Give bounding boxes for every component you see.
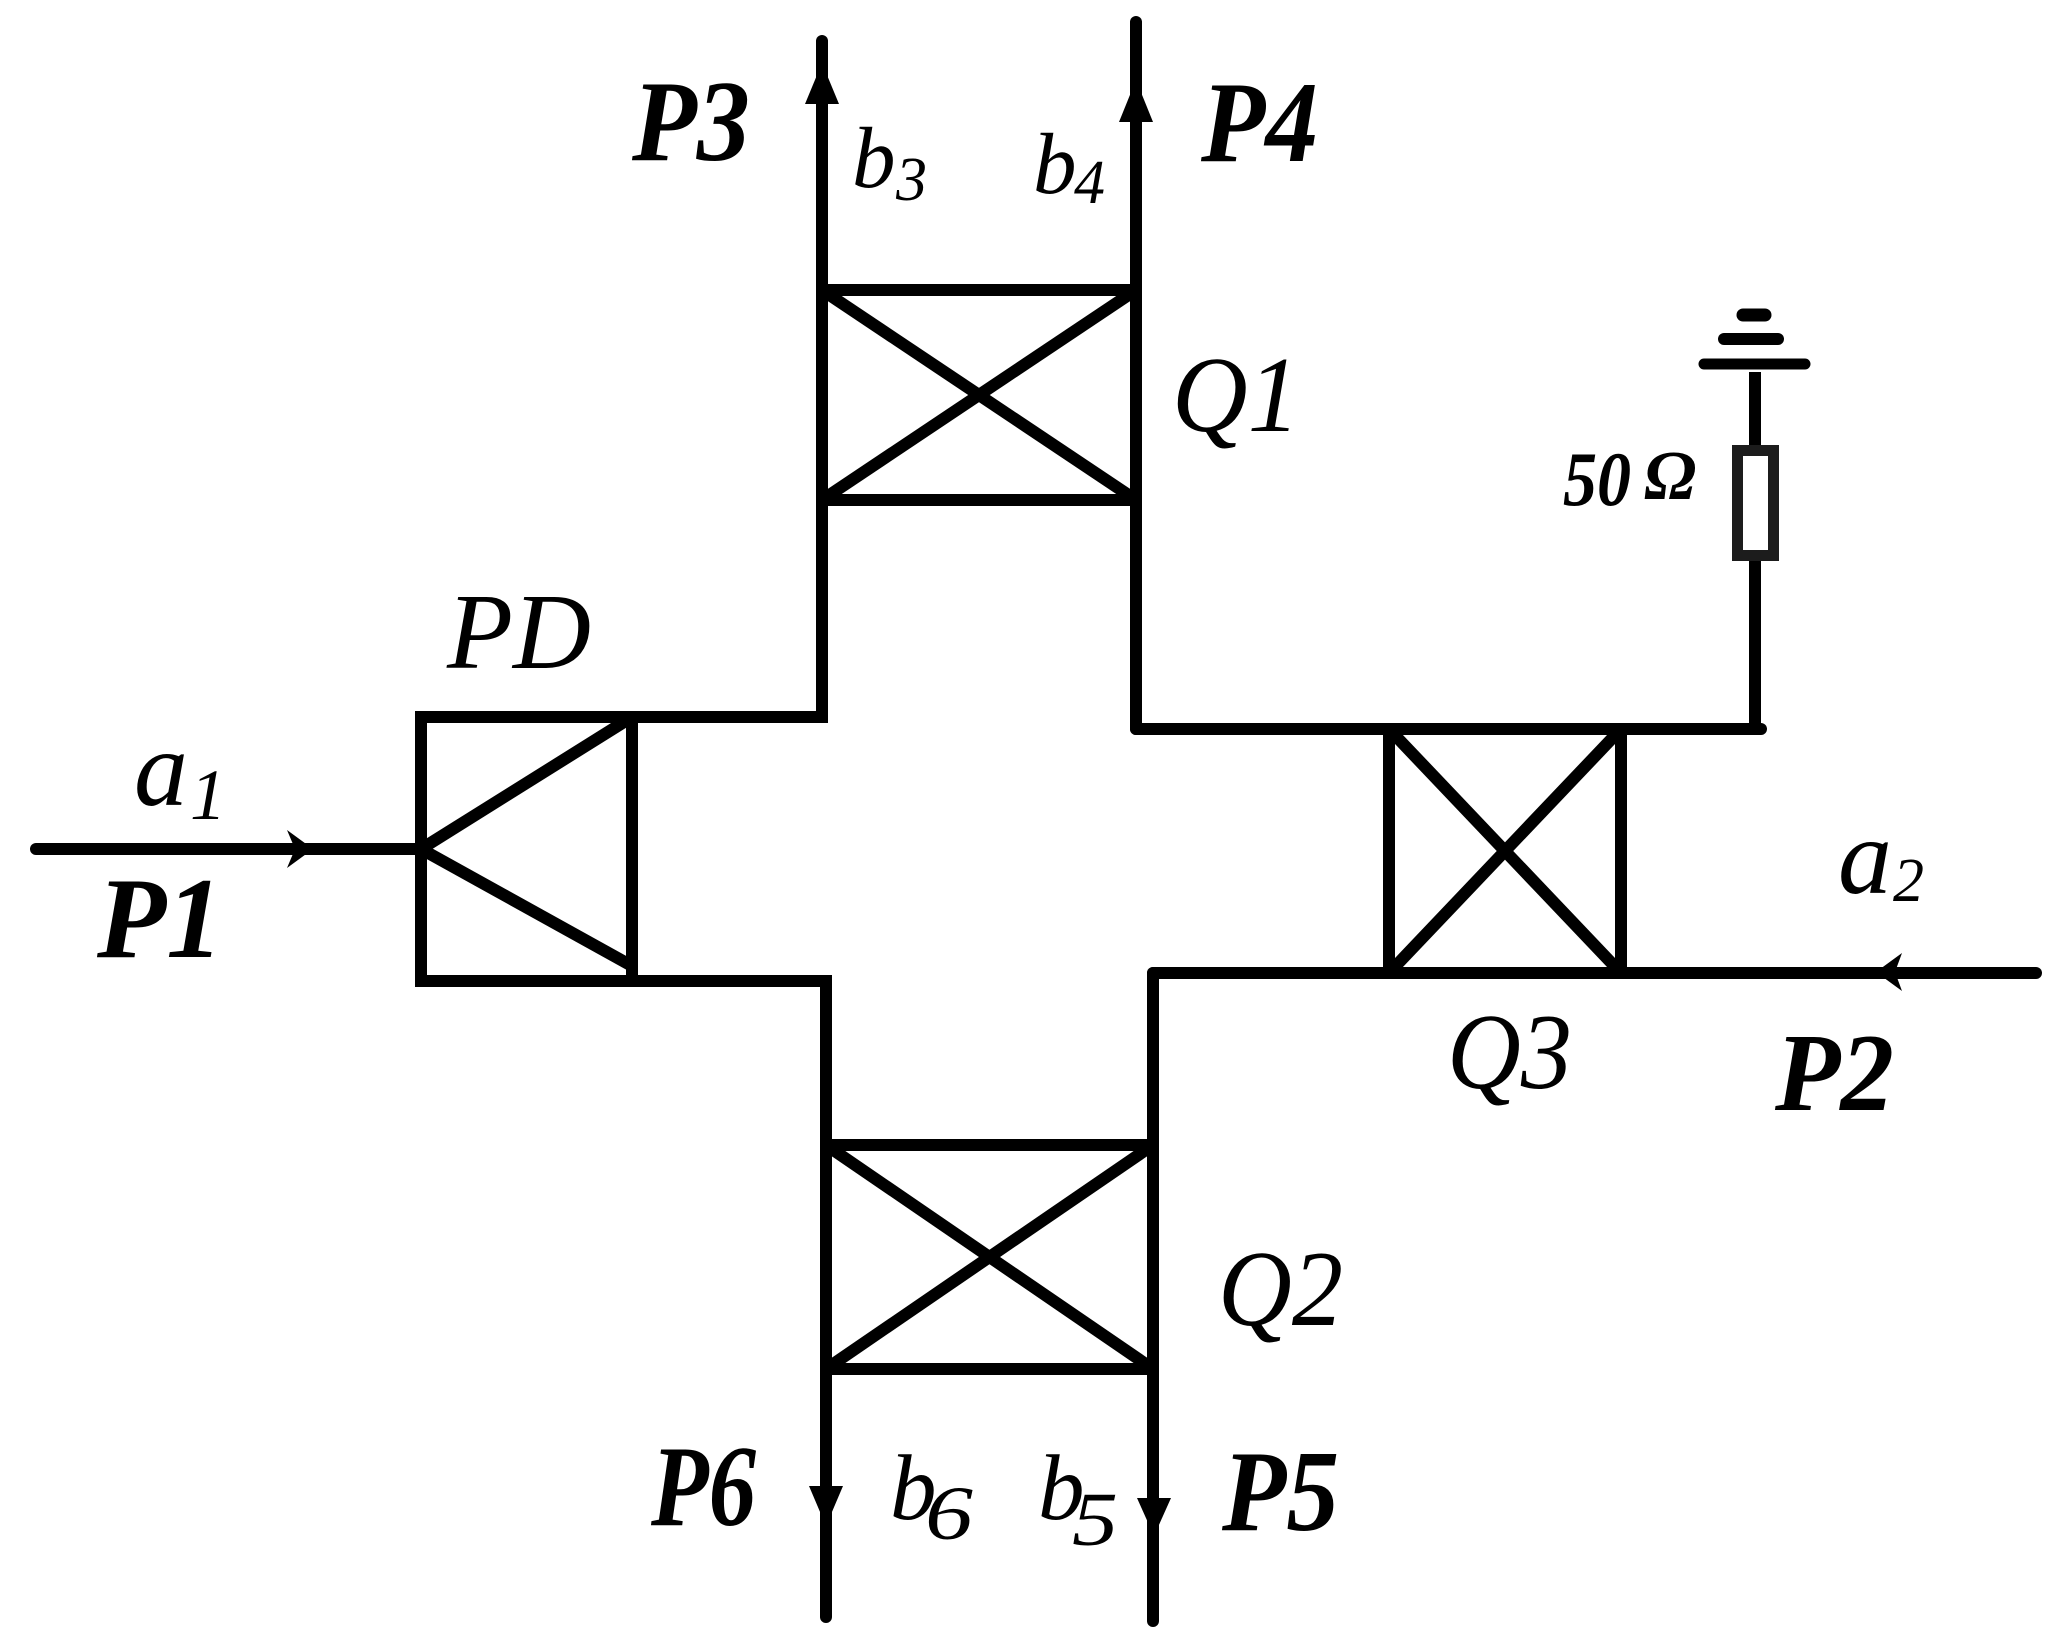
svg-text:Q3: Q3 bbox=[1447, 993, 1572, 1112]
wire PD top edge + top-left wire to P3 line bbox=[421, 711, 828, 723]
arrowhead a1 into PD bbox=[287, 830, 313, 868]
svg-text:b: b bbox=[852, 109, 896, 206]
arrowhead P6 down bbox=[809, 1486, 843, 1526]
svg-text:b: b bbox=[1033, 115, 1077, 212]
svg-text:P1: P1 bbox=[96, 855, 223, 982]
hybrid coupler Q2 box bbox=[826, 1145, 1153, 1369]
hybrid coupler Q1 box bbox=[822, 290, 1136, 500]
arrowhead P5 down bbox=[1137, 1498, 1171, 1536]
hybrid coupler Q3 box bbox=[1389, 729, 1621, 973]
svg-text:a: a bbox=[134, 710, 188, 829]
wire a1 input line P1 bbox=[36, 843, 421, 855]
wire P5 vertical line bbox=[1147, 973, 1159, 1621]
svg-text:2: 2 bbox=[1893, 847, 1924, 915]
wire top-right horizontal from P4 line to resistor bbox=[1136, 723, 1761, 735]
wire P4 vertical line bbox=[1130, 22, 1142, 729]
svg-text:Q1: Q1 bbox=[1172, 336, 1300, 455]
svg-text:Q2: Q2 bbox=[1218, 1230, 1343, 1349]
svg-text:P3: P3 bbox=[631, 58, 750, 185]
wire bottom-right horizontal a2/P2 line bbox=[1153, 967, 2036, 979]
svg-text:a: a bbox=[1838, 798, 1892, 917]
power divider PD box bbox=[421, 711, 632, 987]
svg-text:P5: P5 bbox=[1221, 1428, 1339, 1555]
svg-text:50: 50 bbox=[1563, 436, 1631, 522]
svg-text:4: 4 bbox=[1074, 149, 1105, 217]
svg-text:P6: P6 bbox=[650, 1423, 756, 1550]
arrowhead P4 up bbox=[1119, 80, 1153, 122]
svg-text:PD: PD bbox=[446, 573, 591, 692]
svg-text:5: 5 bbox=[1072, 1478, 1118, 1562]
wire P6 vertical line bbox=[820, 981, 832, 1617]
arrowhead a2 pointing left on P2 line bbox=[1876, 953, 1902, 991]
wire P3 vertical line bbox=[816, 41, 828, 717]
wire PD bottom edge + bottom-left wire bbox=[421, 975, 832, 987]
svg-text:P2: P2 bbox=[1774, 1012, 1894, 1135]
arrowhead P3 up bbox=[805, 63, 839, 104]
ground symbol (three bars) bbox=[1704, 315, 1805, 364]
svg-text:1: 1 bbox=[190, 755, 226, 835]
svg-text:P4: P4 bbox=[1200, 59, 1318, 186]
resistor lead wire bbox=[1749, 372, 1761, 729]
svg-text:6: 6 bbox=[925, 1472, 973, 1556]
svg-text:Ω: Ω bbox=[1644, 438, 1696, 515]
svg-text:3: 3 bbox=[895, 146, 927, 214]
resistor R 50 ohm body bbox=[1738, 451, 1774, 556]
